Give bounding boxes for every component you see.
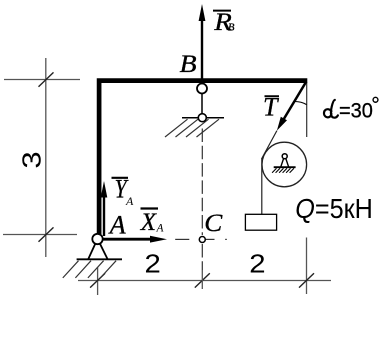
- dimension extension line top-left: [4, 79, 80, 81]
- bottom dimension line (2,2): [78, 280, 331, 282]
- tick below C: [195, 273, 210, 287]
- support A hatching: [63, 261, 79, 278]
- weight block Q: [245, 214, 276, 230]
- pin B: [197, 84, 207, 94]
- tick bottom-left dim: [39, 227, 54, 241]
- pulley axle legs: [281, 159, 289, 167]
- extension line right (below weight): [306, 238, 308, 295]
- reaction Y_A arrow: [103, 196, 105, 236]
- support B ground line: [182, 117, 224, 119]
- svg-text:=30: =30: [339, 99, 373, 123]
- extension below C through dimension: [201, 270, 203, 289]
- pin A: [92, 234, 102, 244]
- pulley axle pin: [282, 154, 287, 159]
- support A triangle: [88, 243, 107, 259]
- node C: [199, 237, 205, 243]
- tick below A: [90, 273, 105, 287]
- tension T arrowhead: [277, 117, 287, 131]
- dimension extension line bottom-left: [3, 234, 77, 236]
- pulley circle: [262, 142, 307, 187]
- tick right: [299, 273, 314, 287]
- support B hatching: [165, 119, 188, 137]
- svg-text:2: 2: [144, 249, 160, 278]
- support B link: [201, 90, 203, 118]
- svg-text:A: A: [108, 210, 126, 239]
- dashed line below C: [201, 244, 203, 270]
- support B lower pin: [198, 114, 206, 122]
- rope from pulley to weight: [261, 158, 263, 214]
- svg-text:A: A: [125, 194, 134, 208]
- svg-text:A: A: [156, 223, 165, 235]
- frame (L-shaped bar): [99, 81, 307, 234]
- tension T rope (thick part): [284, 82, 307, 120]
- reaction R_B arrow: [201, 20, 203, 83]
- vertical reference line from corner: [306, 83, 308, 137]
- pulley axle ground: [274, 166, 296, 168]
- label Q = 5 kN: [295, 193, 373, 225]
- pulley axle hatching: [272, 168, 294, 173]
- dimension line left (3): [45, 58, 47, 257]
- dashed line B to C: [201, 129, 203, 236]
- angle arc: [295, 101, 307, 104]
- support A ground line: [77, 258, 122, 260]
- svg-text:Q=5кН: Q=5кН: [295, 193, 373, 225]
- svg-text:3: 3: [18, 151, 47, 168]
- svg-text:B: B: [228, 23, 235, 34]
- svg-text:B: B: [180, 49, 197, 77]
- svg-text:C: C: [204, 209, 223, 237]
- tick top-left dim: [39, 72, 54, 86]
- label alpha = 30 deg: [324, 100, 338, 118]
- svg-text:X: X: [140, 209, 158, 236]
- reaction X_A arrow: [103, 238, 151, 241]
- dashed line A to C (horizontal): [175, 238, 189, 240]
- rope tip to pulley tangent: [262, 131, 277, 159]
- extension line below A: [97, 267, 99, 295]
- svg-text:2: 2: [249, 249, 265, 278]
